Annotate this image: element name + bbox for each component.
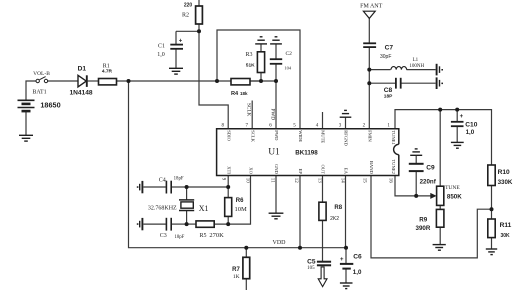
svg-text:FM ANT: FM ANT	[360, 4, 383, 10]
svg-text:MUTE: MUTE	[321, 130, 326, 143]
svg-text:C2: C2	[285, 51, 292, 57]
svg-text:R2: R2	[182, 13, 189, 19]
svg-text:30pF: 30pF	[380, 54, 391, 60]
svg-text:10M: 10M	[235, 206, 248, 213]
svg-text:850K: 850K	[447, 194, 462, 201]
svg-text:FMIN: FMIN	[367, 130, 372, 142]
svg-text:C6: C6	[353, 254, 362, 261]
svg-text:100NH: 100NH	[409, 64, 424, 69]
svg-text:VDD: VDD	[273, 240, 287, 246]
svg-text:SCLK: SCLK	[250, 130, 255, 142]
svg-text:330K: 330K	[498, 179, 513, 186]
svg-text:18650: 18650	[40, 101, 60, 110]
svg-text:PWD: PWD	[269, 109, 275, 121]
svg-text:1,0: 1,0	[157, 52, 165, 58]
svg-text:R3: R3	[245, 52, 252, 58]
svg-text:TUNE1: TUNE1	[391, 130, 396, 145]
svg-text:BK1198: BK1198	[295, 150, 318, 157]
svg-text:C9: C9	[426, 164, 435, 171]
svg-text:VOL-B: VOL-B	[33, 71, 50, 77]
svg-text:10: 10	[245, 178, 250, 184]
svg-text:14: 14	[339, 178, 344, 184]
svg-text:L1: L1	[413, 58, 419, 63]
svg-text:TUNE2: TUNE2	[391, 159, 396, 174]
svg-text:XTI: XTI	[226, 166, 231, 174]
svg-text:220nf: 220nf	[420, 179, 437, 186]
svg-text:R11: R11	[500, 222, 512, 229]
svg-text:270K: 270K	[209, 232, 224, 239]
svg-text:220: 220	[184, 2, 193, 8]
svg-text:R7: R7	[232, 267, 240, 273]
svg-text:R8: R8	[334, 205, 342, 211]
svg-text:C4: C4	[159, 177, 166, 183]
svg-text:105: 105	[307, 266, 315, 271]
svg-text:11: 11	[270, 178, 275, 183]
svg-text:+: +	[340, 257, 344, 263]
svg-text:R6: R6	[236, 198, 244, 204]
svg-text:16: 16	[387, 178, 392, 184]
svg-text:2K2: 2K2	[330, 216, 339, 222]
svg-text:D1: D1	[78, 65, 87, 72]
svg-text:R9: R9	[419, 216, 427, 223]
svg-text:C10: C10	[465, 122, 477, 129]
svg-text:18pF: 18pF	[174, 176, 184, 181]
svg-text:C1: C1	[158, 44, 165, 50]
svg-text:R10: R10	[498, 169, 510, 176]
svg-text:+: +	[460, 114, 464, 120]
svg-text:EP: EP	[298, 169, 303, 175]
svg-text:PWD: PWD	[274, 130, 279, 141]
svg-text:C3: C3	[160, 233, 167, 239]
svg-text:C8: C8	[384, 87, 393, 94]
svg-text:C5: C5	[307, 258, 316, 265]
svg-text:32.768KHZ: 32.768KHZ	[148, 205, 177, 211]
svg-text:R4: R4	[231, 91, 239, 97]
svg-text:BAND: BAND	[369, 161, 374, 175]
svg-text:R5: R5	[199, 233, 206, 239]
svg-text:13: 13	[316, 178, 321, 184]
svg-text:XO: XO	[249, 167, 254, 174]
svg-text:BAT1: BAT1	[32, 90, 46, 96]
svg-text:SDIO: SDIO	[226, 130, 231, 141]
svg-text:1N4148: 1N4148	[69, 90, 92, 97]
svg-text:15: 15	[362, 178, 367, 184]
svg-text:C7: C7	[385, 45, 394, 52]
svg-text:12: 12	[293, 178, 298, 184]
svg-text:+: +	[179, 39, 183, 45]
svg-text:U1: U1	[268, 147, 280, 157]
svg-text:51K: 51K	[246, 62, 255, 68]
svg-text:18P: 18P	[384, 93, 393, 99]
svg-text:1,0: 1,0	[353, 269, 362, 276]
svg-text:TUNE: TUNE	[445, 185, 460, 191]
svg-text:18k: 18k	[240, 91, 248, 96]
svg-text:SCLK: SCLK	[246, 103, 252, 117]
svg-text:RFGND: RFGND	[344, 130, 349, 146]
svg-text:4.7R: 4.7R	[102, 68, 113, 74]
svg-text:X1: X1	[199, 204, 209, 213]
svg-text:18pF: 18pF	[174, 235, 184, 240]
svg-text:1K: 1K	[233, 274, 240, 280]
svg-text:OUT: OUT	[321, 164, 326, 174]
svg-text:EA: EA	[344, 168, 349, 175]
svg-text:1,0: 1,0	[466, 129, 475, 136]
svg-text:30K: 30K	[501, 233, 511, 239]
svg-text:WIDE: WIDE	[298, 130, 303, 142]
svg-text:390R: 390R	[416, 225, 431, 232]
svg-text:104: 104	[284, 65, 292, 70]
svg-text:GND: GND	[274, 164, 279, 175]
